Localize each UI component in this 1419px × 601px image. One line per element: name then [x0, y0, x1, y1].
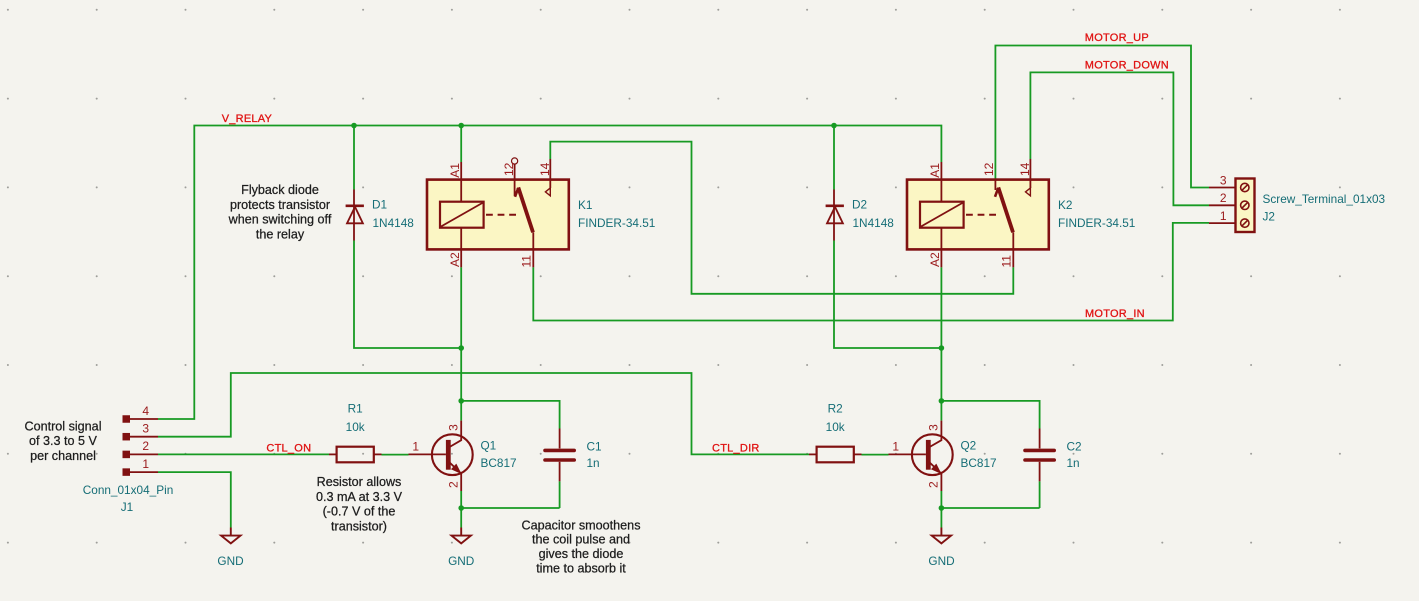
svg-text:11: 11 — [520, 255, 534, 268]
wire Q1 emitter to GND and C1 bottom — [461, 481, 559, 527]
svg-text:1: 1 — [892, 440, 899, 454]
J1 pin 3 — [123, 433, 131, 441]
svg-text:A1: A1 — [928, 163, 942, 178]
svg-text:4: 4 — [142, 404, 149, 418]
J1 pin numbers — [142, 404, 149, 471]
svg-text:C1: C1 — [587, 440, 602, 454]
ground symbol at Q2 — [932, 528, 951, 544]
svg-text:gives the diode: gives the diode — [539, 547, 624, 561]
svg-text:the relay: the relay — [256, 228, 305, 242]
K1 pin A2 — [460, 228, 462, 268]
ground symbol at Q1 — [452, 528, 471, 544]
diode D1 — [346, 190, 364, 241]
svg-text:1: 1 — [1220, 209, 1227, 223]
junction D2 / Q2 collector net — [939, 345, 945, 351]
svg-text:R2: R2 — [828, 402, 843, 416]
K1 pin A1 — [460, 162, 462, 202]
wire D2 anode to K2 A2 node — [834, 241, 941, 349]
svg-text:of 3.3 to 5 V: of 3.3 to 5 V — [29, 434, 98, 448]
svg-text:3: 3 — [927, 424, 941, 431]
diode D2 — [826, 190, 844, 241]
Q1 pin numbers — [412, 424, 460, 488]
K2 pin 14 — [1029, 159, 1031, 188]
svg-text:3: 3 — [1220, 173, 1227, 187]
junction V_RELAY / D1 — [351, 123, 357, 129]
svg-text:Capacitor smoothens: Capacitor smoothens — [521, 518, 640, 532]
K2 pin A2 — [940, 228, 942, 268]
svg-text:MOTOR_IN: MOTOR_IN — [1085, 308, 1145, 320]
wire Q1 collector node to C1 — [461, 401, 559, 429]
svg-text:1N4148: 1N4148 — [373, 216, 415, 230]
wire CTL_ON J1 pin2 to R1 — [158, 453, 329, 455]
svg-text:J1: J1 — [121, 500, 133, 514]
note flyback diode — [228, 183, 332, 241]
wire MOTOR_DOWN K2 pin14 to J2 pin2 — [1030, 72, 1209, 205]
svg-text:12: 12 — [502, 162, 516, 176]
relay K1 — [427, 158, 569, 267]
svg-text:GND: GND — [928, 554, 954, 568]
junction V_RELAY / K1 A1 — [458, 123, 464, 129]
K2 pin 11 — [1012, 232, 1014, 267]
svg-text:3: 3 — [142, 422, 149, 436]
junction Q1 collector / C1 — [458, 398, 464, 404]
K1 pin 12 (unconnected) — [514, 164, 516, 196]
transistor Q1 — [409, 421, 473, 491]
svg-text:K1: K1 — [578, 198, 592, 212]
svg-text:1n: 1n — [1067, 456, 1080, 470]
svg-text:GND: GND — [448, 554, 474, 568]
wire K1 pin14 to K2 pin11 — [550, 142, 1013, 294]
svg-text:12: 12 — [982, 162, 996, 176]
svg-text:MOTOR_DOWN: MOTOR_DOWN — [1085, 59, 1169, 71]
svg-text:11: 11 — [1000, 255, 1014, 268]
svg-text:D1: D1 — [372, 198, 387, 212]
svg-text:10k: 10k — [826, 420, 845, 434]
J1 pin 1 — [123, 468, 131, 476]
junction Q1 emitter / C1 — [458, 505, 464, 511]
svg-text:Conn_01x04_Pin: Conn_01x04_Pin — [83, 483, 174, 497]
wire Q2 collector node to C2 — [941, 401, 1039, 429]
svg-text:MOTOR_UP: MOTOR_UP — [1085, 32, 1149, 44]
svg-text:Q1: Q1 — [481, 439, 497, 453]
svg-text:2: 2 — [142, 439, 149, 453]
connector J1 — [123, 415, 159, 476]
J2 pin numbers — [1220, 173, 1227, 223]
svg-text:14: 14 — [1018, 162, 1032, 176]
svg-text:time to absorb it: time to absorb it — [536, 562, 626, 576]
junction Q2 collector / C2 — [939, 398, 945, 404]
svg-text:FINDER-34.51: FINDER-34.51 — [1058, 216, 1135, 230]
svg-text:per channel: per channel — [30, 449, 96, 463]
wire R2 to Q2 base — [862, 454, 889, 456]
svg-text:2: 2 — [927, 481, 941, 488]
K1 pin numbers — [448, 162, 552, 267]
K2 pin numbers — [928, 162, 1032, 267]
note resistor allows — [316, 475, 403, 533]
wire MOTOR_UP K2 pin12 to J2 pin3 — [995, 46, 1209, 188]
svg-text:GND: GND — [217, 554, 243, 568]
junction D1 / Q1 collector net — [458, 345, 464, 351]
K2 pin 12 — [994, 179, 996, 191]
svg-text:Flyback diode: Flyback diode — [241, 183, 319, 197]
note capacitor smoothens — [521, 518, 640, 575]
svg-text:CTL_DIR: CTL_DIR — [712, 443, 760, 455]
svg-text:Q2: Q2 — [961, 439, 977, 453]
svg-text:2: 2 — [1220, 191, 1227, 205]
svg-text:K2: K2 — [1058, 198, 1072, 212]
capacitor C2 — [1025, 429, 1054, 482]
Q2 pin numbers — [892, 424, 940, 488]
relay K2 — [907, 159, 1049, 267]
wire D1 top stub — [353, 126, 355, 190]
svg-text:when switching off: when switching off — [228, 213, 332, 227]
resistor R2 — [809, 447, 862, 463]
svg-text:A2: A2 — [448, 252, 462, 267]
svg-text:D2: D2 — [852, 198, 867, 212]
svg-text:(-0.7 V of the: (-0.7 V of the — [323, 505, 396, 519]
capacitor C1 — [545, 429, 574, 482]
svg-text:1N4148: 1N4148 — [853, 216, 895, 230]
note control signal — [24, 419, 101, 463]
K2 pin A1 — [940, 162, 942, 202]
svg-text:Resistor allows: Resistor allows — [317, 475, 402, 489]
wire D2 top stub — [833, 126, 835, 190]
transistor Q2 — [889, 421, 953, 491]
svg-text:3: 3 — [446, 424, 460, 431]
svg-text:A2: A2 — [928, 252, 942, 267]
svg-text:1: 1 — [412, 440, 419, 454]
svg-text:FINDER-34.51: FINDER-34.51 — [578, 216, 655, 230]
svg-text:the coil pulse and: the coil pulse and — [532, 533, 630, 547]
resistor R1 — [329, 447, 382, 463]
wire J1 pin1 to GND — [158, 472, 231, 527]
wire D1 anode to K1 A2 node — [354, 241, 461, 349]
svg-text:BC817: BC817 — [481, 456, 517, 470]
wire K1 A1 stub — [460, 126, 462, 163]
svg-text:BC817: BC817 — [961, 456, 997, 470]
screw terminal J2 — [1209, 179, 1255, 233]
K1 pin 11 — [532, 232, 534, 267]
svg-text:10k: 10k — [346, 420, 365, 434]
svg-text:Screw_Terminal_01x03: Screw_Terminal_01x03 — [1263, 192, 1386, 206]
svg-text:C2: C2 — [1067, 440, 1082, 454]
svg-text:1n: 1n — [587, 456, 600, 470]
J1 pin 2 — [123, 451, 131, 459]
svg-text:V_RELAY: V_RELAY — [222, 113, 273, 125]
svg-text:CTL_ON: CTL_ON — [266, 443, 311, 455]
svg-text:1: 1 — [142, 457, 149, 471]
svg-text:R1: R1 — [348, 402, 363, 416]
wire R1 to Q1 base — [382, 454, 409, 456]
wire Q2 emitter to GND and C2 bottom — [941, 481, 1039, 527]
svg-text:0.3 mA at 3.3 V: 0.3 mA at 3.3 V — [316, 490, 403, 504]
svg-text:A1: A1 — [448, 163, 462, 178]
junction Q2 emitter / C2 — [939, 505, 945, 511]
J1 pin 4 — [123, 415, 131, 423]
svg-text:2: 2 — [446, 481, 460, 488]
svg-text:protects transistor: protects transistor — [230, 198, 330, 212]
junction V_RELAY / D2 — [831, 123, 837, 129]
svg-text:J2: J2 — [1263, 210, 1275, 224]
wire CTL_DIR J1 pin3 to R2 — [158, 373, 809, 454]
wire MOTOR_IN K1 pin11 to J2 pin1 — [533, 223, 1209, 321]
svg-text:14: 14 — [538, 162, 552, 176]
svg-text:Control signal: Control signal — [24, 419, 101, 433]
wire V_RELAY bus from J1 pin4 up and across to K2 A1 — [158, 46, 1209, 528]
wire K1 A2 to Q1 collector — [460, 267, 462, 420]
K1 pin 14 — [549, 159, 551, 188]
wire K2 A2 to Q2 collector — [940, 267, 942, 420]
ground symbol at J1 — [221, 528, 240, 544]
svg-text:transistor): transistor) — [331, 519, 387, 533]
